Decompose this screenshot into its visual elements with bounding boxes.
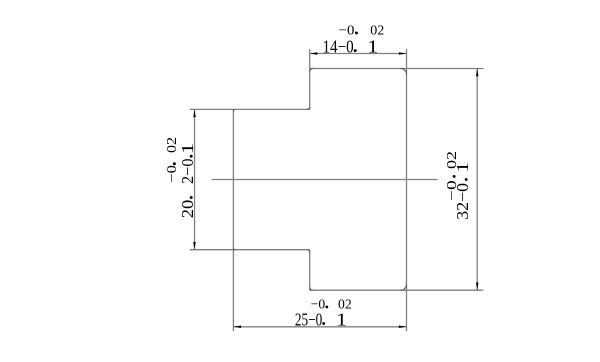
part outline: left block bottom edge + 20.2 bottom extension line	[190, 249, 310, 251]
dimension line 20.2 (left)	[194, 109, 196, 249]
fillet top-left corner	[233, 109, 235, 111]
svg-text:25−0: 25−0	[295, 309, 322, 329]
dimension text 14 upper tolerance period	[355, 31, 358, 34]
dimension line 32 (right)	[476, 69, 478, 291]
fillet flange top-left corner	[310, 69, 313, 72]
fillet flange bottom-left corner	[310, 287, 313, 290]
part outline: step top vertical + 14 left extension line	[309, 49, 311, 109]
fillet step bottom inner corner	[307, 250, 310, 253]
dimension line 14 (top)	[310, 53, 407, 55]
centerline	[212, 179, 438, 181]
svg-text:1: 1	[367, 36, 378, 56]
dimension text 32 upper tolerance period	[453, 175, 456, 178]
part outline: flange bottom edge + 32 bottom extension line	[310, 289, 484, 291]
part outline: left edge + 25 left extension line	[232, 109, 234, 331]
svg-text:1: 1	[178, 143, 197, 154]
dimension text 25 period	[322, 322, 325, 325]
svg-text:02: 02	[164, 137, 179, 153]
fillet flange top-right corner	[401, 69, 407, 75]
fillet flange bottom-right corner	[401, 284, 407, 290]
dimension text 25 upper tolerance period	[325, 305, 328, 308]
arrow right-bottom	[476, 283, 479, 291]
arrow left-bottom	[193, 242, 196, 250]
dimension text 20.2 upper tolerance period	[173, 162, 176, 165]
part outline: flange top edge + 32 top extension line	[310, 68, 484, 70]
svg-text:−0: −0	[164, 165, 179, 183]
arrow left-top	[193, 110, 196, 118]
part outline: left block top edge + 20.2 top extension line	[190, 108, 310, 110]
arrow bottom-right	[399, 326, 407, 329]
arrow right-top	[476, 69, 479, 77]
svg-text:2−0: 2−0	[178, 159, 197, 185]
svg-text:1: 1	[336, 309, 347, 329]
arrow top-left	[310, 52, 318, 55]
fillet step top inner corner	[307, 107, 310, 110]
svg-text:32−0: 32−0	[453, 183, 472, 220]
part outline: right edge + 14 right and 25 right extension lines	[406, 49, 408, 331]
dimension text 20.2 first period	[190, 196, 193, 199]
fillet bottom-left corner	[233, 248, 235, 250]
part outline: step bottom vertical	[309, 250, 311, 291]
arrow top-right	[399, 52, 407, 55]
svg-text:20: 20	[178, 200, 197, 219]
dimension line 25 (bottom)	[233, 326, 406, 328]
dimension text 20.2 second period	[190, 155, 193, 158]
dimension text 14 period	[354, 49, 357, 52]
svg-text:1: 1	[453, 162, 472, 173]
arrow bottom-left	[234, 326, 242, 329]
svg-text:14−0: 14−0	[323, 36, 354, 56]
dimension text 32 period	[465, 178, 468, 181]
